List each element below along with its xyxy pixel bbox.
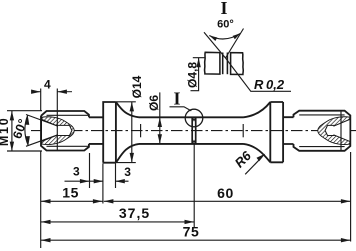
svg-text:I: I [220, 0, 227, 18]
60deg cone flank ext lines [26, 115, 58, 147]
svg-text:37,5: 37,5 [119, 205, 150, 221]
right center hole hatched cup [318, 117, 350, 145]
svg-text:R6: R6 [232, 148, 255, 171]
right head full-thread line [340, 111, 342, 151]
svg-text:R 0,2: R 0,2 [254, 77, 285, 92]
right head outline [294, 111, 351, 151]
right center hole cone [325, 120, 349, 142]
extension line thread end (dim 4) [56, 89, 58, 112]
svg-text:60°: 60° [217, 18, 234, 30]
dim 3 right [115, 180, 128, 182]
right fillet (top) R6 [244, 102, 271, 117]
right groove [283, 117, 293, 144]
right head thread thin lines [299, 114, 344, 116]
right fillet (bottom) [244, 144, 271, 162]
centerline axis [31, 130, 356, 132]
extension line head right edge (dim 3) [89, 153, 91, 188]
detail left block [205, 52, 220, 74]
extension line right face (dims 60/75) [350, 152, 352, 242]
dim M10 vertical line [11, 111, 13, 151]
dim 4 [32, 91, 73, 93]
svg-text:60: 60 [217, 185, 234, 201]
svg-text:3: 3 [124, 165, 131, 179]
detail V flanks [204, 29, 244, 59]
detail right block [231, 53, 244, 75]
svg-text:75: 75 [183, 224, 200, 240]
right collar [270, 102, 283, 162]
detail circle I [185, 109, 203, 127]
60deg arc [25, 115, 28, 145]
dim O4,8 [191, 58, 206, 91]
svg-text:15: 15 [62, 185, 79, 201]
dim 60 [104, 200, 351, 202]
left center hole hatched cup [42, 117, 74, 145]
left collar [103, 102, 116, 163]
M10 ext lines [7, 111, 42, 151]
svg-text:4: 4 [44, 77, 51, 91]
dim 37,5 [41, 221, 194, 223]
detail 60deg arc [209, 33, 240, 39]
svg-text:3: 3 [73, 165, 80, 179]
left head full-thread line [56, 111, 58, 151]
dim O6 [159, 92, 161, 143]
svg-text:M10: M10 [0, 116, 11, 146]
dim O14 [131, 102, 133, 163]
left fillet to neck (top) [116, 102, 139, 117]
left head thread thin lines [47, 114, 89, 116]
svg-text:Ø6: Ø6 [147, 95, 161, 111]
svg-text:Ø4,8: Ø4,8 [186, 62, 200, 88]
detail groove strip lines [222, 53, 224, 75]
svg-text:Ø14: Ø14 [130, 75, 144, 98]
dim 15 [41, 200, 103, 202]
extension line left face lower (dims 15/37,5/75) [40, 152, 42, 249]
tangency tick right [242, 124, 244, 137]
extension line collar right face (dim 3) [115, 163, 117, 188]
left head groove [89, 117, 103, 144]
extension line notch center (dims 37,5/60) [193, 145, 195, 228]
neck O6 edges [139, 116, 244, 118]
tangency tick left [140, 124, 142, 137]
notch lines in main view [191, 117, 193, 143]
left fillet to neck (bottom) [116, 144, 139, 163]
left center hole cone [42, 120, 72, 142]
dim 75 [41, 239, 351, 241]
O14 ext lines [116, 102, 136, 163]
label I leader [170, 107, 192, 111]
left head M10 outline [41, 111, 89, 151]
extension line collar left face (dims 3/15/60) [102, 163, 104, 203]
R6 leader [245, 157, 262, 174]
svg-text:I: I [173, 88, 180, 108]
R0,2 leader [226, 58, 292, 91]
extension line left face upper (dim 4) [40, 89, 42, 111]
dim 3 left [65, 180, 104, 182]
